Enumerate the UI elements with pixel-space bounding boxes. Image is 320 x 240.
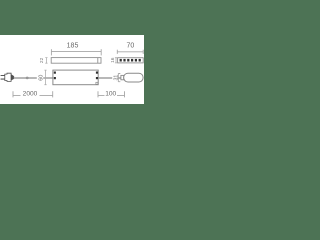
dimension line 70 bbox=[117, 51, 143, 53]
bracket 31 bbox=[118, 74, 120, 82]
bracket 22 bbox=[45, 58, 47, 64]
tick left of 185 dim bbox=[50, 49, 52, 55]
dimension line 2000 bbox=[13, 94, 53, 96]
port square 3 bbox=[127, 59, 129, 62]
svg-text:100: 100 bbox=[105, 91, 116, 98]
small square bottom right in box bbox=[96, 82, 98, 84]
label 60 knockout bbox=[37, 73, 43, 82]
tick left 2000 bbox=[12, 91, 14, 97]
port square 6 bbox=[139, 59, 141, 62]
terminal nub left top bbox=[54, 72, 56, 74]
white content band bbox=[0, 35, 144, 104]
tick left 100 bbox=[97, 91, 99, 97]
tick right of 70 dim bbox=[142, 50, 144, 54]
wire: output cable bbox=[98, 77, 121, 78]
terminal nub right bottom bbox=[96, 77, 98, 79]
svg-text:70: 70 bbox=[127, 43, 135, 50]
connector tab bbox=[121, 75, 124, 79]
cable bead bbox=[26, 77, 29, 80]
driver top view box bbox=[51, 58, 101, 64]
svg-text:60: 60 bbox=[39, 75, 45, 81]
svg-text:2000: 2000 bbox=[23, 91, 38, 98]
green bottom band bbox=[0, 0, 144, 144]
connector pill bbox=[124, 73, 143, 82]
tick right 2000 bbox=[52, 91, 54, 97]
svg-text:185: 185 bbox=[67, 43, 79, 50]
inline driver box bbox=[53, 70, 98, 85]
port square 5 bbox=[135, 59, 137, 62]
dimension line 100 bbox=[98, 94, 125, 96]
tick right 100 bbox=[124, 91, 126, 97]
bracket 16 bbox=[115, 58, 117, 63]
driver end cap line bbox=[97, 58, 99, 64]
label 2000 knockout bbox=[21, 90, 40, 96]
dimension line 185 bbox=[51, 50, 101, 52]
svg-text:22: 22 bbox=[39, 57, 45, 63]
tick right of 185 dim bbox=[100, 49, 102, 55]
mains plug bbox=[1, 76, 5, 80]
port square 1 bbox=[120, 59, 122, 62]
label 31 knockout bbox=[112, 74, 117, 81]
bracket height of inline box bbox=[44, 70, 46, 85]
label 100 knockout bbox=[105, 90, 118, 96]
wire: input cable bbox=[14, 77, 53, 78]
port square 4 bbox=[131, 59, 133, 62]
tick left of 70 dim bbox=[116, 50, 118, 54]
distributor strip box bbox=[118, 58, 144, 63]
terminal nub left bottom bbox=[54, 77, 56, 79]
port square 2 bbox=[123, 59, 125, 62]
terminal nub right top bbox=[96, 72, 98, 74]
